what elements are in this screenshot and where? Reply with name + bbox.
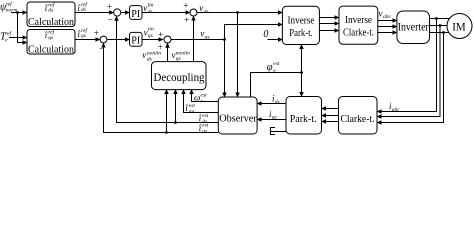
block PI1 [130,6,143,20]
sum S2b [158,30,171,53]
svg-text:ref: ref [5,30,12,37]
svg-text:ω: ω [194,93,200,103]
svg-text:Observer: Observer [219,113,257,125]
svg-text:qs: qs [202,129,207,135]
label v_abc [379,9,392,21]
node current taps [435,17,438,20]
svg-text:ds: ds [147,56,152,62]
label v_qs nonlin [172,50,191,62]
svg-text:Clarke-t.: Clarke-t. [343,28,374,39]
svg-text:Park-t.: Park-t. [289,28,313,39]
svg-text:Calculation: Calculation [28,44,74,56]
wire Te ref input [9,37,27,39]
svg-text:Decoupling: Decoupling [154,72,205,84]
label phi_e est [267,61,280,74]
node psi branch junction [16,11,19,14]
svg-text:lin: lin [148,2,154,8]
svg-text:v: v [142,50,146,60]
wire Calc1 to sum1 [75,12,114,14]
sum S2 [94,29,107,54]
svg-text:norm: norm [6,7,18,13]
sum S1b [183,2,197,26]
wire omega_r est to decoupling [192,90,219,102]
block Park-t. [286,97,322,135]
svg-text:qs: qs [148,33,153,39]
svg-text:PI: PI [131,36,140,47]
svg-text:Inverse: Inverse [345,15,372,26]
sum S1 [107,3,121,26]
svg-text:+: + [183,2,188,12]
wire decoupling out to sum1b [193,16,195,62]
wire sum2b right to junction [171,39,225,41]
wire v_qs up and to Inverse Park input2 [225,25,283,40]
label v_ds [199,3,208,15]
svg-text:+: + [107,3,112,13]
svg-text:ds: ds [81,7,86,13]
label psi_norm ref [0,1,17,14]
block Observer [218,97,257,134]
label i_ds [272,94,280,106]
wire i_qs to observer [257,119,286,121]
svg-text:+: + [184,16,189,26]
label v_ds lin [143,2,153,14]
svg-text:lin: lin [148,27,154,33]
wire PI2 to sum2b [142,39,163,41]
svg-text:qs: qs [205,35,210,41]
wire decoupling out to sum2b [167,43,169,61]
wires Clarke to Park [322,108,339,110]
wire phi down to Park [301,73,303,97]
block Calculation i_ds [27,1,75,28]
svg-text:Clarke-t.: Clarke-t. [341,113,375,125]
label omega_r est [194,92,207,104]
svg-text:mr: mr [189,109,196,115]
block Inverse Park-t. [282,6,319,44]
label i_abc [389,101,400,113]
svg-text:v: v [379,9,383,19]
block Calculation i_qs [27,28,75,55]
node i_qs est tap [165,131,168,134]
wire v_qs down to Observer [224,40,226,98]
svg-text:IM: IM [452,19,466,33]
svg-text:ds: ds [275,99,280,105]
svg-text:abc: abc [392,107,401,113]
block Decoupling [152,62,207,90]
svg-text:abc: abc [383,14,392,20]
node v_qs junction [223,38,226,41]
svg-text:qs: qs [176,56,181,62]
label v_qs lin [144,27,154,39]
wire sum1b to Inverse Park input1 [197,12,282,14]
label i_ds est [199,113,209,125]
svg-text:qs: qs [48,35,53,41]
svg-text:ds: ds [148,9,153,15]
wire sum1 to PI1 [121,12,130,14]
label i_qs est [199,123,209,135]
wire i_qs est tap up to decoupling [166,90,168,133]
wire i_ds est tap up to decoupling [175,90,177,123]
svg-text:e: e [5,38,8,44]
svg-text:Inverse: Inverse [288,16,315,27]
wire i_qs est feedback to sum2 [104,43,219,132]
svg-text:Calculation: Calculation [28,16,74,28]
block Inverse Clarke-t. [339,6,378,44]
svg-text:Inverter: Inverter [398,22,429,34]
wires Inverse Park to Inverse Clarke [319,17,339,19]
svg-text:−: − [108,15,113,25]
wire i_ds to observer [257,103,286,105]
wires Inverter to IM [430,18,450,20]
wire i_ds est feedback to sum1 [117,16,219,122]
svg-text:0: 0 [263,29,268,40]
svg-text:φ: φ [267,62,273,73]
wire psi_norm ref input [11,12,27,14]
svg-text:PI: PI [131,9,140,20]
svg-text:+: + [94,29,99,39]
wire sum2 to PI2 [107,39,130,41]
wire current feedback b [377,26,440,117]
svg-text:ds: ds [204,9,209,15]
label v_qs [200,29,209,41]
wire current feedback a [377,19,437,112]
label i_mr est [185,103,195,115]
block Clarke-t. [339,97,378,135]
node v_ds tap [236,11,239,14]
svg-text:qs: qs [81,33,86,39]
block PI2 [130,32,143,46]
svg-text:ds: ds [48,8,53,14]
label T_e ref [0,30,13,44]
wire i_mr est to decoupling [184,90,219,113]
wire phi up to Inverse Park [301,45,303,73]
wire Calc2 to sum2 [75,39,100,41]
label i_ds ref [78,1,89,13]
wire 0 to Inverse Park input3 [268,39,283,41]
label v_ds nonlin [142,50,161,62]
wire PI1 to sum1b [142,12,190,14]
label i_qs [269,109,277,121]
node phi junction [300,71,303,74]
svg-text:est: est [273,61,280,67]
machine IM [447,14,472,39]
ground-like symbol at Park lower left [270,127,272,135]
wire psi branch down to Calc2 [18,13,28,43]
label i_qs ref [78,27,89,39]
svg-text:qs: qs [272,115,277,121]
wire v_ds tap down to Observer [237,13,239,98]
wire current feedback c [377,33,444,123]
block Inverter [397,11,430,44]
node i_ds est tap [174,121,177,124]
svg-text:+: + [158,30,163,40]
wire phi_e est from observer to Park blocks [251,73,302,98]
wires Inverse Clarke to Inverter [378,20,397,22]
svg-text:Park-t.: Park-t. [290,113,317,125]
